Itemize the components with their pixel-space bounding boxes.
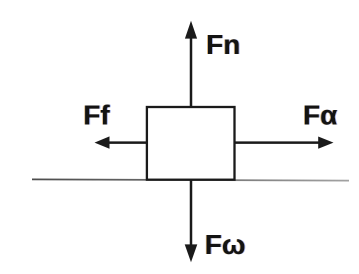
svg-text:Ff: Ff — [83, 99, 110, 130]
label Ff — [83, 99, 112, 130]
force arrow Ff (friction, left) — [95, 136, 147, 148]
svg-text:Fα: Fα — [303, 99, 337, 130]
label Fw (omega) — [204, 229, 246, 260]
label Fn — [205, 29, 241, 60]
label Fa (alpha) — [302, 99, 338, 130]
svg-text:Fω: Fω — [205, 229, 246, 260]
block (mass) — [147, 107, 235, 180]
ground line — [32, 179, 349, 180]
svg-text:Fn: Fn — [206, 29, 240, 60]
force arrow Fw (weight, down) — [185, 180, 198, 263]
force arrow Fa (applied force, right) — [235, 137, 334, 149]
force arrow Fn (normal force, up) — [185, 21, 197, 107]
